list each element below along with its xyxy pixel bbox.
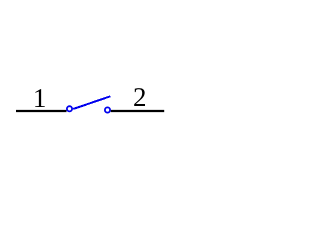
pin label 1 [33,83,47,113]
wire left terminal [16,110,67,112]
wire right terminal [111,110,164,112]
switch lever [73,96,110,109]
svg-text:2: 2 [133,82,147,112]
svg-text:1: 1 [33,83,47,113]
pin label 2 [133,82,147,112]
switch contact circle (pin 1) [67,106,72,111]
switch contact circle (pin 2) [105,107,110,112]
